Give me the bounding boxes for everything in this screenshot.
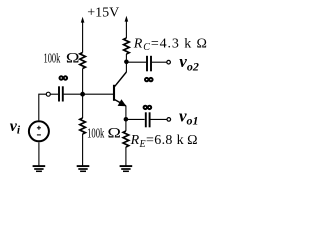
node emitter junction dot [124,117,129,122]
power arrow left rail [81,17,85,53]
wire collector to output cap [126,61,146,63]
wire left rail mid [82,69,84,119]
wire terminal to cap C1 [50,93,58,95]
svg-text:vo2: vo2 [179,52,199,73]
ground under RE [120,166,133,171]
capacitor C3 (vo1) [146,112,150,127]
resistor R2 100k bottom zigzag [80,118,86,134]
node collector junction dot [124,60,129,65]
svg-text:Ω: Ω [66,51,80,67]
wire emitter to output cap [126,118,145,120]
capacitor C1 (input) [59,86,63,101]
terminal vo2 open circle [167,60,171,64]
wire source to ground [38,142,40,165]
ground under source [33,166,46,171]
label infinity C1 [60,76,68,79]
capacitor C2 (vo2) [147,56,151,72]
transistor Q1 [114,72,126,106]
resistor RE zigzag [123,131,129,147]
wire emitter rail bottom [125,147,127,166]
resistor R1 100k top zigzag [80,53,86,69]
wire collector rail [125,54,127,72]
label infinity C3 [144,106,152,109]
wire cap C1 to base node [64,93,83,95]
resistor RC zigzag [124,38,130,54]
svg-text:vi: vi [10,118,21,137]
svg-text:100k: 100k [87,126,104,141]
label infinity C2 [145,78,153,81]
node base junction dot [80,92,85,97]
terminal input open circle [46,92,50,96]
power arrow right rail [125,16,129,38]
ground under R2 [77,166,90,171]
svg-text:RE=6.8 k Ω: RE=6.8 k Ω [130,133,198,150]
wire base [83,93,114,95]
svg-text:Ω: Ω [108,125,122,141]
terminal vo1 open circle [167,118,171,122]
source Vi circle [29,121,49,141]
wire input top corner [39,94,47,120]
wire left rail bottom [82,134,84,166]
wire cap C2 to terminal [152,61,167,63]
svg-text:RC=4.3 k Ω: RC=4.3 k Ω [133,37,208,54]
wire emitter rail [125,106,127,131]
svg-text:+15V: +15V [87,5,119,20]
wire cap C3 to terminal [150,118,167,120]
svg-text:vo1: vo1 [179,106,199,127]
svg-text:100k: 100k [44,52,61,67]
